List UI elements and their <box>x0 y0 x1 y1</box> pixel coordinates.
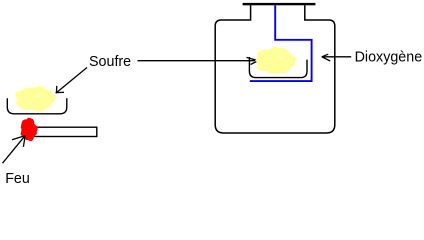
Dioxygene arrow <box>322 54 351 61</box>
sulfur blob in left dish <box>15 86 56 111</box>
white speck in jar blob <box>279 57 281 59</box>
sulfur blob in jar <box>255 47 296 74</box>
gas jar outline <box>215 5 335 133</box>
match stick <box>31 127 97 136</box>
white speck in left blob <box>38 95 40 97</box>
Soufre horizontal arrow to jar blob <box>138 57 259 64</box>
svg-text:Feu: Feu <box>5 171 30 187</box>
svg-text:Soufre: Soufre <box>89 54 131 70</box>
svg-text:Dioxygène: Dioxygène <box>355 49 423 65</box>
flame blob <box>21 118 38 141</box>
Soufre diagonal arrow to left blob <box>56 68 87 94</box>
cup inside jar <box>249 57 307 78</box>
left dish <box>7 98 67 114</box>
blue spoon wire <box>250 5 312 81</box>
jar lid plate <box>243 3 316 5</box>
Feu arrow <box>3 136 26 164</box>
